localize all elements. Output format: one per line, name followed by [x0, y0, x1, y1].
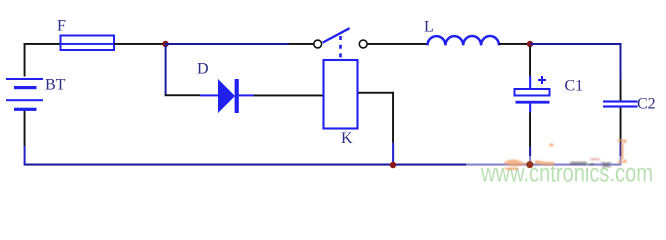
wire: inductor to junction — [499, 43, 528, 45]
svg-text:BT: BT — [45, 76, 66, 93]
wire: junction to right corner (navy) — [530, 43, 622, 45]
wire: relay right horizontal — [359, 92, 395, 94]
wire: branch corner to diode — [165, 94, 200, 96]
svg-text:D: D — [197, 61, 209, 78]
node: junction top-right — [527, 41, 533, 47]
switch right contact — [359, 40, 367, 48]
svg-text:L: L — [424, 19, 434, 36]
wire: right vertical lower (navy) — [620, 143, 622, 165]
switch left contact — [314, 40, 322, 48]
wire: short black before switch — [289, 43, 314, 45]
wire: C1 branch black upper — [529, 46, 531, 77]
capacitor C2 — [603, 100, 638, 107]
wire: switch to inductor — [368, 43, 428, 45]
wire: relay drop vertical (blue) — [392, 143, 394, 165]
node: junction top-left — [162, 41, 168, 47]
switch blade — [323, 28, 350, 42]
wire: battery bottom black — [24, 111, 26, 146]
svg-text:K: K — [341, 130, 353, 147]
node: junction bottom-left — [390, 162, 396, 168]
watermark white wash band — [466, 156, 666, 189]
wire: junction to switch (navy) — [166, 43, 290, 45]
wire: C1 branch black lower — [529, 112, 531, 147]
wire: battery bottom blue to rail — [24, 146, 26, 164]
wire: fuse to junction — [114, 43, 164, 45]
wire: C2 black lower lead — [620, 108, 622, 144]
svg-text:C2: C2 — [637, 96, 656, 113]
wire: relay drop black stub — [392, 92, 394, 143]
wire: battery top vertical — [24, 43, 26, 77]
wire: bottom rail (navy) — [24, 164, 622, 166]
svg-text:F: F — [57, 18, 66, 35]
watermark www.cntronics.com — [480, 158, 653, 188]
watermark grey remnants — [570, 162, 612, 168]
wire: C2 black upper lead — [620, 80, 622, 101]
wire: right vertical upper (navy) — [620, 43, 622, 80]
battery BT — [6, 78, 43, 111]
wire: diode to relay — [254, 95, 323, 97]
inductor L — [428, 36, 500, 45]
relay K coil — [324, 60, 358, 129]
node: junction bottom-right — [526, 161, 533, 168]
capacitor C1 — [515, 76, 550, 112]
wire: C1 branch navy to rail — [529, 147, 531, 164]
switch dotted link to relay — [339, 36, 342, 59]
svg-text:C1: C1 — [565, 78, 584, 95]
diode D — [200, 79, 254, 113]
fuse F body — [61, 36, 115, 51]
wire: top-left horizontal (battery to fuse) — [24, 43, 60, 45]
wire: left branch vertical (navy) — [165, 43, 167, 95]
